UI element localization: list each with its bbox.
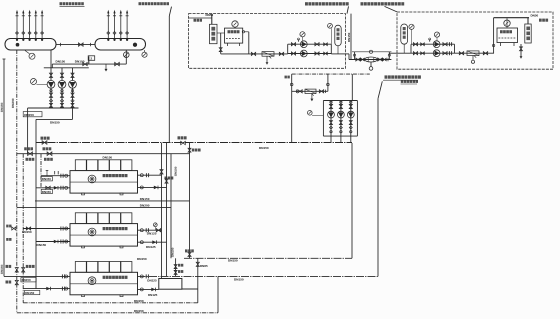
svg-text:DN150: DN150 <box>42 177 51 181</box>
svg-text:DN150: DN150 <box>37 243 47 247</box>
svg-text:DN125: DN125 <box>146 245 156 249</box>
svg-text:DN65: DN65 <box>200 264 208 268</box>
svg-text:DN150: DN150 <box>134 299 144 303</box>
svg-text:DN150: DN150 <box>140 197 150 201</box>
svg-text:DN150: DN150 <box>228 259 238 263</box>
svg-text:DN150: DN150 <box>171 247 175 257</box>
svg-text:DN150: DN150 <box>259 146 269 150</box>
svg-text:DN150: DN150 <box>42 190 51 194</box>
svg-text:DN200: DN200 <box>140 203 150 207</box>
svg-text:DN150: DN150 <box>134 309 144 313</box>
svg-text:DN150: DN150 <box>174 166 178 176</box>
svg-text:DN150: DN150 <box>347 32 351 42</box>
svg-text:DN150: DN150 <box>0 264 4 274</box>
svg-text:DN200: DN200 <box>11 98 15 108</box>
svg-text:DN150: DN150 <box>24 113 34 117</box>
svg-text:DN150: DN150 <box>234 277 244 281</box>
svg-text:DN150: DN150 <box>50 121 60 125</box>
svg-text:DN150: DN150 <box>22 230 32 234</box>
svg-text:DN50: DN50 <box>531 13 539 17</box>
svg-text:DN150: DN150 <box>56 59 66 63</box>
svg-text:DN150: DN150 <box>22 278 31 282</box>
svg-text:DN150: DN150 <box>25 291 34 295</box>
svg-text:DN150: DN150 <box>103 155 113 159</box>
svg-text:DN125: DN125 <box>148 293 158 297</box>
svg-text:DN150: DN150 <box>0 102 4 112</box>
svg-text:DN125: DN125 <box>147 279 157 283</box>
svg-text:DN125: DN125 <box>147 232 157 236</box>
svg-text:DN150: DN150 <box>137 257 147 261</box>
